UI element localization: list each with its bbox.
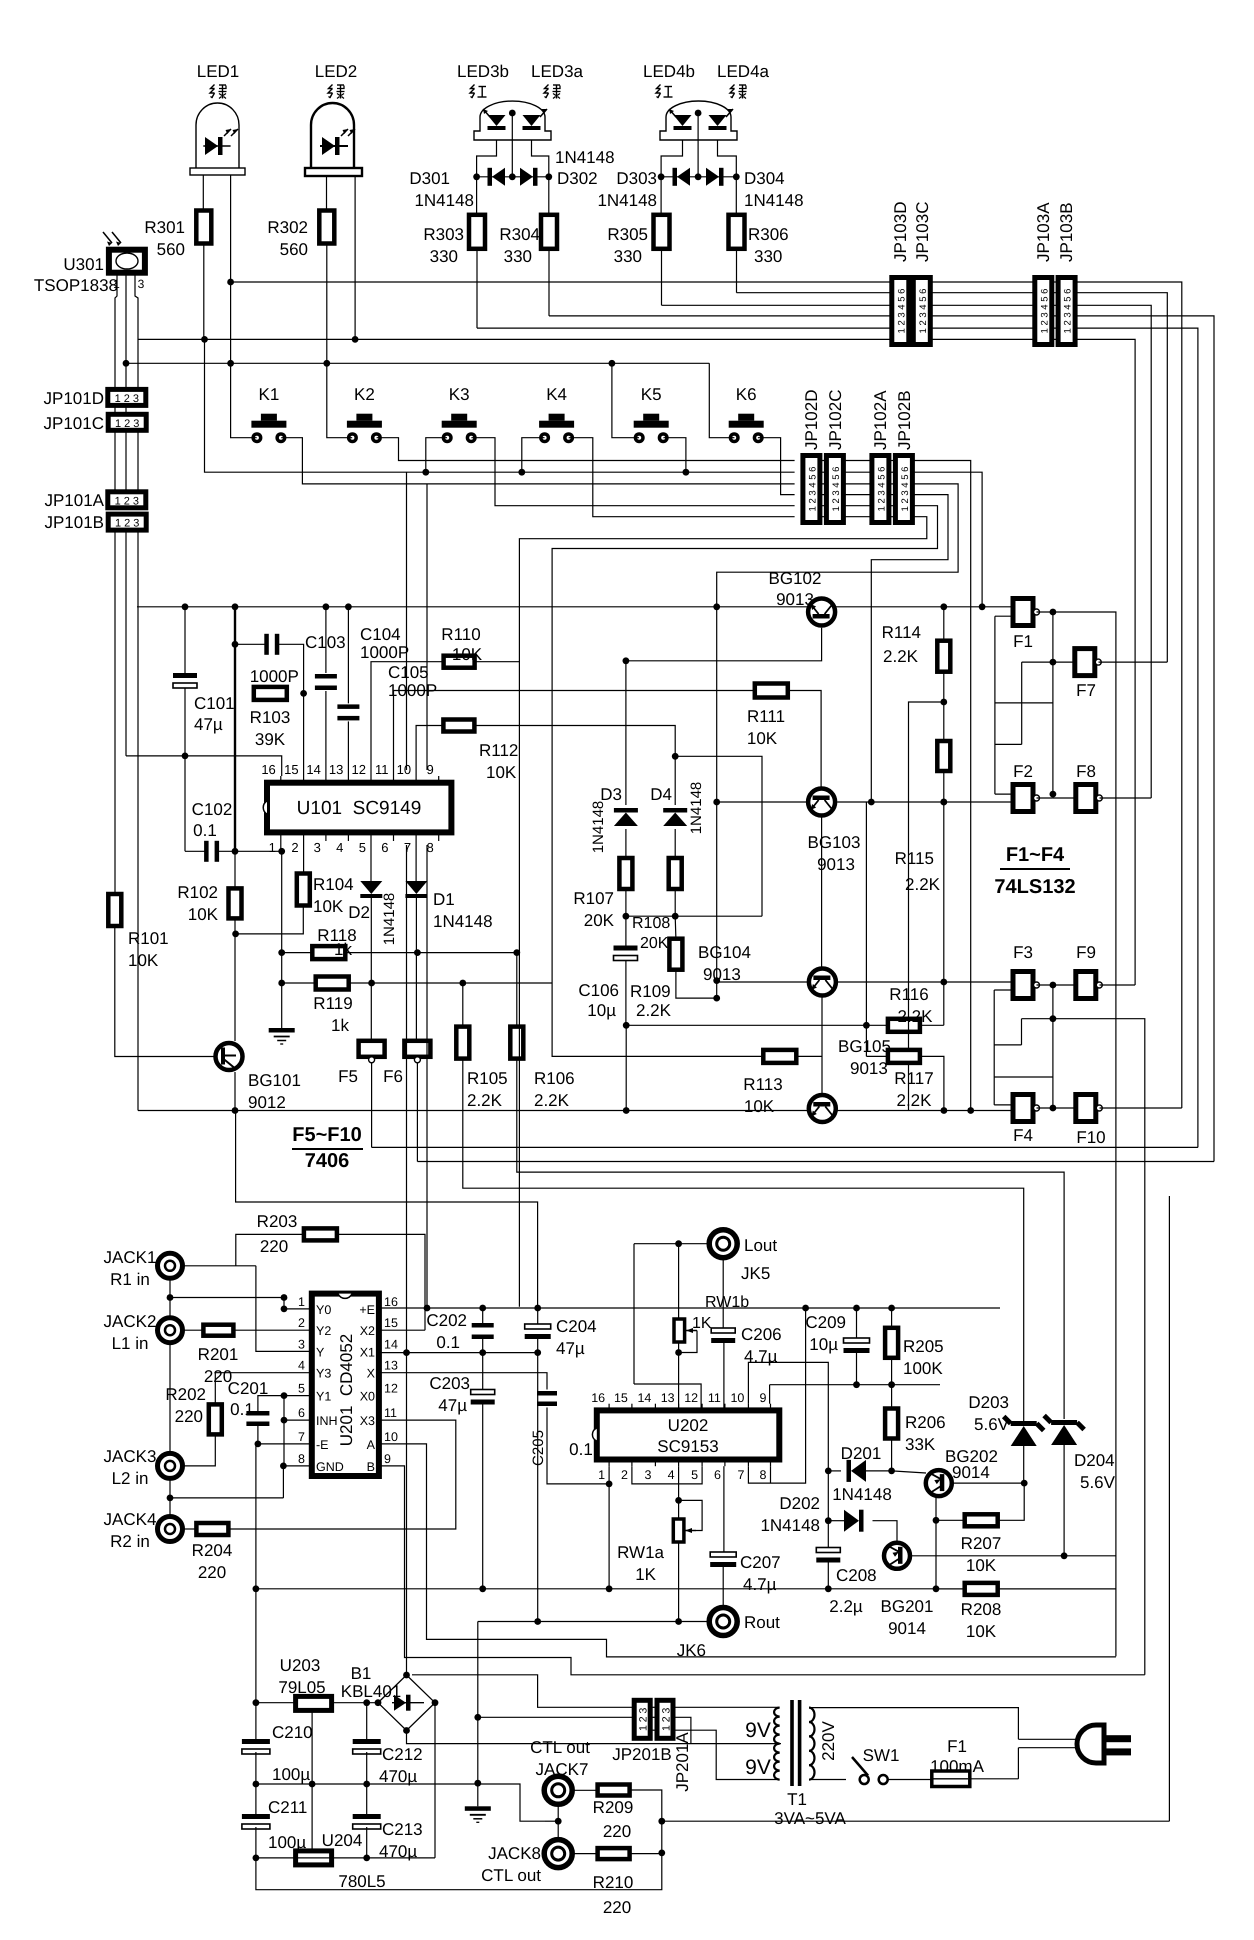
svg-text:330: 330 (754, 247, 782, 266)
wire X1 row pin14 (379, 1352, 538, 1354)
wire key bus 363 (126, 362, 709, 364)
capacitor C204 (525, 1324, 551, 1329)
svg-text:16: 16 (591, 1391, 605, 1405)
wire D202 to BG201 (873, 1521, 898, 1543)
resistor R303 (476, 177, 478, 216)
wire col 943 (943, 607, 945, 641)
svg-text:1 2 3: 1 2 3 (115, 495, 139, 507)
wire K2 right (377, 438, 795, 461)
resistor R302 (319, 211, 334, 244)
svg-text:15: 15 (384, 1316, 398, 1330)
svg-text:2.2K: 2.2K (898, 1007, 934, 1026)
jumper JP102B (895, 456, 912, 523)
svg-text:7: 7 (298, 1430, 305, 1444)
svg-text:R115: R115 (895, 849, 934, 868)
svg-text:D301: D301 (409, 169, 450, 188)
transistor BG105 9013 (809, 1095, 836, 1122)
wire F1 out right (1053, 612, 1116, 1656)
svg-text:4.7µ: 4.7µ (743, 1575, 777, 1594)
wire gamma staircase to JP201 pin1 (412, 1675, 633, 1708)
wire JP201 pin rows between (652, 1706, 656, 1708)
svg-text:220: 220 (198, 1563, 226, 1582)
svg-text:R113: R113 (743, 1075, 782, 1094)
svg-text:2: 2 (291, 840, 298, 855)
svg-text:X1: X1 (360, 1345, 375, 1359)
svg-text:D2: D2 (348, 903, 370, 922)
wire R107 bottom (625, 889, 627, 916)
svg-text:3: 3 (298, 1337, 305, 1351)
svg-text:0.1: 0.1 (436, 1333, 460, 1352)
wire LED2 left lead (326, 176, 328, 211)
svg-text:D1: D1 (433, 890, 455, 909)
svg-text:9013: 9013 (703, 965, 741, 984)
svg-text:K6: K6 (736, 385, 757, 404)
wire bus row 294 to F7 (737, 293, 1168, 662)
svg-text:20K: 20K (640, 935, 669, 952)
wire F1 latch (994, 616, 996, 794)
svg-text:D202: D202 (779, 1494, 820, 1513)
wire JP102 row3 wrap to col716 (717, 484, 958, 607)
svg-text:1K: 1K (692, 1315, 712, 1332)
svg-text:R301: R301 (144, 218, 185, 237)
svg-text:C213: C213 (382, 1820, 423, 1839)
svg-text:13: 13 (384, 1359, 398, 1373)
svg-text:14: 14 (384, 1337, 398, 1351)
svg-text:JP102C: JP102C (826, 390, 845, 450)
svg-text:330: 330 (504, 247, 532, 266)
wire Vcc bus 607 (137, 606, 1013, 608)
svg-text:U301: U301 (63, 255, 104, 274)
resistor R119 (316, 977, 349, 990)
svg-text:1 2 3 4 5 6: 1 2 3 4 5 6 (1063, 289, 1074, 334)
svg-text:47µ: 47µ (556, 1339, 585, 1358)
svg-text:LED1: LED1 (197, 62, 240, 81)
svg-text:9014: 9014 (888, 1619, 926, 1638)
svg-text:JACK3: JACK3 (104, 1447, 157, 1466)
capacitor C203 (471, 1390, 495, 1395)
LED LED3 bicolor (474, 101, 551, 140)
svg-text:16: 16 (261, 762, 275, 777)
diode D202 (844, 1510, 859, 1532)
jack JACK7 CTL out (544, 1776, 572, 1804)
svg-text:T1: T1 (787, 1790, 807, 1809)
resistor R108 (674, 829, 676, 858)
svg-text:14: 14 (306, 762, 320, 777)
capacitor C201 (246, 1411, 269, 1416)
wire F5 out (371, 1063, 373, 1148)
svg-text:JACK4: JACK4 (104, 1510, 157, 1529)
svg-text:R104: R104 (313, 875, 354, 894)
wire K5 right (663, 438, 686, 473)
svg-text:220: 220 (603, 1822, 631, 1841)
svg-text:JACK7: JACK7 (536, 1760, 589, 1779)
svg-text:K3: K3 (449, 385, 470, 404)
svg-text:4.7µ: 4.7µ (744, 1347, 778, 1366)
svg-text:3: 3 (138, 277, 145, 291)
jumper JP101D (108, 389, 146, 405)
svg-text:LED4a: LED4a (717, 62, 770, 81)
wire BG104 row (717, 981, 808, 983)
wire R117 leads (866, 1055, 888, 1057)
gate F2 (1013, 785, 1033, 812)
wire K1 right (281, 438, 794, 484)
wire pin2 col down (303, 841, 305, 873)
resistor R101 (108, 894, 121, 926)
jack JACK8 CTL out (544, 1840, 572, 1868)
svg-text:1 2 3: 1 2 3 (115, 418, 139, 430)
wire K3 left (426, 438, 447, 473)
svg-text:F9: F9 (1076, 943, 1096, 962)
svg-text:330: 330 (614, 247, 642, 266)
svg-text:F3: F3 (1013, 943, 1033, 962)
wire Lout col down (633, 1244, 635, 1384)
resistor R109 (669, 939, 682, 970)
wire C201 bottom -E row (258, 1424, 312, 1444)
svg-text:R203: R203 (257, 1212, 298, 1231)
svg-text:5: 5 (298, 1382, 305, 1396)
svg-text:11: 11 (708, 1391, 721, 1405)
svg-text:F7: F7 (1076, 681, 1096, 700)
wire U203 U204 col (311, 1710, 313, 1850)
svg-text:F1~F4: F1~F4 (1006, 844, 1065, 866)
wire gnd row to pin8 (170, 1497, 283, 1499)
wire F7 out (1099, 661, 1168, 663)
wire R301 bottom (203, 244, 205, 340)
svg-text:R306: R306 (748, 225, 789, 244)
svg-text:D303: D303 (616, 169, 657, 188)
resistor R203 (304, 1228, 337, 1240)
svg-text:1 2 3: 1 2 3 (638, 1707, 650, 1731)
svg-text:7406: 7406 (305, 1150, 350, 1172)
svg-text:1000P: 1000P (250, 667, 299, 686)
gate F5 7406 (359, 1041, 385, 1057)
svg-text:5.6V: 5.6V (1080, 1473, 1116, 1492)
svg-text:R111: R111 (747, 707, 785, 726)
svg-text:9012: 9012 (248, 1093, 286, 1112)
wire K6 left (709, 363, 734, 437)
svg-text:D4: D4 (650, 785, 672, 804)
wire C205 bottom (547, 1408, 609, 1484)
svg-text:JK6: JK6 (677, 1641, 706, 1660)
wire D201 row to BG202 (892, 1471, 926, 1473)
wire RW1a bottom (678, 1542, 680, 1622)
wire LED4 leads (661, 140, 682, 177)
svg-text:B1: B1 (351, 1664, 372, 1683)
svg-text:10µ: 10µ (809, 1335, 838, 1354)
svg-text:C210: C210 (272, 1723, 313, 1742)
svg-text:Y0: Y0 (316, 1303, 331, 1317)
jack JACK1 (158, 1253, 183, 1278)
svg-text:47µ: 47µ (438, 1396, 467, 1415)
wire JP102 row1 out (913, 461, 971, 1111)
gate F4 (1013, 1095, 1033, 1122)
svg-text:R209: R209 (593, 1798, 634, 1817)
wire R104 bottom (236, 906, 304, 934)
svg-text:R210: R210 (593, 1873, 634, 1892)
wire JP102 row2 out (913, 472, 983, 607)
wire pin15 col (303, 693, 305, 776)
svg-text:220V: 220V (819, 1720, 838, 1760)
wire JP101 pin columns (114, 405, 116, 414)
svg-text:1k: 1k (334, 940, 352, 959)
pushbutton K4 (549, 414, 565, 421)
wire K4 left (522, 438, 545, 473)
wire F3 latch (993, 990, 995, 1105)
svg-text:9013: 9013 (850, 1059, 888, 1078)
svg-text:LED4b: LED4b (643, 62, 695, 81)
wire C106 bottom to rail (625, 1025, 627, 1110)
resistor R202 (209, 1404, 222, 1434)
wire F1 out (1037, 611, 1053, 613)
svg-text:JACK8: JACK8 (488, 1844, 541, 1863)
svg-text:R108: R108 (632, 915, 670, 932)
wire R209 right (630, 1790, 662, 1853)
pot RW1a (678, 1466, 680, 1519)
svg-text:7: 7 (404, 840, 411, 855)
svg-text:R207: R207 (961, 1534, 1002, 1553)
wire row 952 (282, 952, 313, 954)
svg-text:10K: 10K (486, 763, 517, 782)
svg-text:D204: D204 (1074, 1451, 1115, 1470)
svg-text:R201: R201 (198, 1345, 239, 1364)
wire C207 (723, 1466, 725, 1551)
svg-text:10K: 10K (966, 1556, 997, 1575)
diode D2 (370, 841, 372, 881)
svg-text:4: 4 (298, 1359, 305, 1373)
svg-text:10K: 10K (313, 897, 344, 916)
wire pin11 row (394, 691, 755, 777)
wire F5 row (372, 1146, 1198, 1148)
resistor R114 (937, 641, 950, 672)
diode D304 (698, 176, 736, 178)
wire long drop 406 (406, 472, 408, 770)
resistor R103 (254, 687, 287, 700)
svg-text:560: 560 (280, 240, 308, 259)
svg-text:R1 in: R1 in (110, 1270, 150, 1289)
svg-text:11: 11 (375, 762, 389, 777)
wire D1 to F6 (415, 896, 417, 1041)
svg-text:8: 8 (298, 1452, 305, 1466)
wire U301 pin3 (135, 273, 138, 389)
wire LED2 right lead (354, 176, 356, 339)
wire R106 top (516, 953, 518, 1027)
gate F10 (1076, 1095, 1096, 1122)
wire F3 out (1037, 984, 1053, 986)
svg-text:F2: F2 (1013, 762, 1033, 781)
bridge B1 KBL401 (378, 1675, 435, 1731)
svg-text:U203: U203 (280, 1656, 321, 1675)
wire pins2-5 bracket (632, 1466, 702, 1484)
svg-text:1N4148: 1N4148 (597, 191, 657, 210)
wire Rout row (478, 1621, 709, 1623)
svg-text:C206: C206 (741, 1325, 782, 1344)
wire R114 junction left (909, 702, 944, 1111)
wire R109 bottom (676, 970, 717, 998)
svg-text:R204: R204 (192, 1541, 233, 1560)
svg-text:LED3b: LED3b (457, 62, 509, 81)
svg-text:1N4148: 1N4148 (433, 912, 493, 931)
svg-text:560: 560 (157, 240, 185, 259)
svg-text:10K: 10K (966, 1622, 997, 1641)
wire jack gnd chain 1-2 (169, 1278, 171, 1317)
svg-text:2.2K: 2.2K (897, 1091, 933, 1110)
svg-text:1N4148: 1N4148 (760, 1516, 820, 1535)
capacitor C106 (614, 946, 638, 951)
capacitor C207 (710, 1552, 736, 1557)
wire pin1 ground col (281, 851, 283, 1028)
svg-text:100mA: 100mA (930, 1757, 985, 1776)
svg-text:9014: 9014 (952, 1463, 990, 1482)
wire R201 to pin2 (233, 1329, 311, 1331)
wire K5 left (612, 363, 639, 437)
svg-text:10: 10 (384, 1430, 398, 1444)
wire K3 right (471, 438, 794, 506)
LED LED4 bicolor (660, 101, 737, 140)
resistor R115 (937, 741, 950, 771)
svg-text:X: X (367, 1367, 376, 1381)
capacitor C212 (353, 1739, 381, 1744)
svg-text:15: 15 (284, 762, 298, 777)
svg-text:13: 13 (329, 762, 343, 777)
svg-text:3: 3 (314, 840, 321, 855)
resistor R210 (598, 1848, 630, 1859)
svg-text:7: 7 (737, 1468, 744, 1482)
transistor BG202 9014 (926, 1470, 952, 1496)
svg-text:JACK1: JACK1 (104, 1248, 157, 1267)
svg-text:220: 220 (260, 1237, 288, 1256)
svg-text:RW1a: RW1a (617, 1543, 664, 1562)
svg-text:9V: 9V (745, 1719, 771, 1742)
wire R116 leads (866, 1024, 888, 1026)
svg-text:BG102: BG102 (769, 569, 822, 588)
diode D3 (625, 661, 627, 805)
diode D1 (415, 841, 417, 881)
wire R111 right to BG103 (788, 691, 821, 787)
jumper JP103C (913, 278, 930, 345)
wire mid rail 1784 (256, 1783, 478, 1785)
svg-text:0.1: 0.1 (569, 1440, 593, 1459)
diode D4 (674, 756, 676, 805)
svg-text:1k: 1k (331, 1016, 349, 1035)
svg-text:9: 9 (384, 1452, 391, 1466)
jumper JP103D (892, 278, 909, 345)
resistor R106 (510, 1027, 523, 1059)
svg-text:15: 15 (614, 1391, 628, 1405)
wire pins7-8 bracket (748, 1308, 805, 1483)
svg-text:JP102B: JP102B (895, 390, 914, 450)
plug (1077, 1725, 1104, 1763)
wire rail to V+ path (236, 1111, 538, 1309)
svg-text:47µ: 47µ (194, 715, 223, 734)
LED LED1 (196, 103, 239, 168)
svg-text:R112: R112 (479, 741, 518, 760)
svg-text:R2 in: R2 in (110, 1532, 150, 1551)
svg-text:R117: R117 (894, 1069, 933, 1088)
resistor R113 (763, 1050, 796, 1063)
svg-text:R303: R303 (423, 225, 464, 244)
svg-text:33K: 33K (905, 1435, 936, 1454)
jack JACK2 (158, 1318, 183, 1343)
wire K1 left (231, 363, 257, 437)
svg-text:1 2 3 4 5 6: 1 2 3 4 5 6 (896, 289, 907, 334)
wire JACK4 tip (183, 1528, 197, 1530)
svg-text:C106: C106 (578, 981, 619, 1000)
wire JP102 row6 wrap to R110 net (519, 517, 926, 662)
wire K6 right (758, 438, 795, 495)
wire thick column 235 (234, 607, 236, 852)
svg-text:D201: D201 (841, 1444, 882, 1463)
pushbutton K5 (643, 414, 659, 421)
svg-text:2.2K: 2.2K (905, 875, 941, 894)
svg-text:1: 1 (269, 840, 276, 855)
wire pin10 row A (379, 1444, 1116, 1657)
svg-text:JP103D: JP103D (891, 202, 910, 262)
svg-text:U202: U202 (668, 1416, 709, 1435)
svg-text:BG104: BG104 (698, 943, 751, 962)
jumper JP201A (657, 1700, 673, 1738)
svg-text:4: 4 (336, 840, 343, 855)
wire col 716 down (716, 607, 718, 998)
U202 pin stubs (608, 1404, 610, 1411)
wire bus 916 (626, 915, 762, 917)
svg-text:K4: K4 (546, 385, 567, 404)
wire Y row pin3 (256, 1266, 312, 1352)
svg-text:5: 5 (359, 840, 366, 855)
svg-text:2: 2 (621, 1468, 628, 1482)
svg-text:U204: U204 (322, 1831, 363, 1850)
svg-text:79L05: 79L05 (278, 1678, 325, 1697)
svg-text:74LS132: 74LS132 (994, 876, 1075, 898)
svg-text:F1: F1 (947, 1737, 967, 1756)
wire long drop 427 (426, 484, 428, 770)
svg-text:10K: 10K (747, 729, 778, 748)
resistor R305 (660, 177, 662, 216)
wire cord to plug (1018, 1738, 1081, 1740)
capacitor C208 (816, 1548, 840, 1553)
svg-text:C101: C101 (194, 694, 235, 713)
wire R110 right (475, 662, 520, 1307)
wire R204 to X3 (228, 1420, 455, 1529)
wire bus row 306 to F8 (662, 305, 1152, 798)
wire pin1 col U202 (608, 1466, 610, 1589)
svg-text:CTL out: CTL out (530, 1738, 590, 1757)
wire R108 bottom (674, 889, 676, 916)
ground middle (269, 1028, 295, 1033)
svg-text:0.1: 0.1 (193, 821, 217, 840)
svg-text:12: 12 (352, 762, 366, 777)
wire R304 bottom (548, 249, 550, 316)
svg-text:R114: R114 (882, 623, 921, 642)
svg-text:D304: D304 (744, 169, 785, 188)
wire pin9 row B (379, 1466, 1145, 1675)
regulator U204 780L5 (296, 1851, 332, 1865)
wire R119 row to R113 (552, 983, 763, 1056)
wire BG103 row (717, 801, 806, 803)
svg-text:C211: C211 (268, 1798, 307, 1817)
svg-text:BG103: BG103 (808, 833, 861, 852)
wire pin15 row (379, 1329, 425, 1331)
pushbutton K6 (738, 414, 754, 421)
svg-text:100K: 100K (903, 1359, 943, 1378)
wire jack7-8 chain (557, 1804, 559, 1839)
zener D204 (1051, 1425, 1077, 1445)
svg-text:C202: C202 (426, 1311, 467, 1330)
wire right drop 1169 (1168, 1196, 1170, 1821)
svg-text:F6: F6 (383, 1067, 403, 1086)
wire R210 right (630, 1853, 662, 1855)
wire F9 out (1100, 984, 1136, 986)
wire row 1025 (626, 1024, 866, 1026)
